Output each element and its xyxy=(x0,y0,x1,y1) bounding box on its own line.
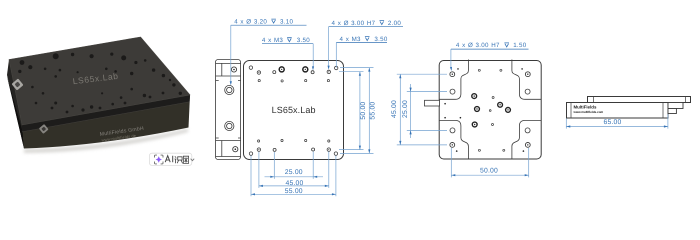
product soft shadow xyxy=(24,129,188,154)
svg-text:55.00: 55.00 xyxy=(369,102,376,120)
svg-text:65.00: 65.00 xyxy=(603,119,621,126)
strip counterbore hole 1 xyxy=(225,85,234,94)
dim 25.00 (left vertical of bottom view) xyxy=(407,91,447,93)
svg-text:25.00: 25.00 xyxy=(402,100,409,118)
small holes row 2 xyxy=(258,80,260,82)
strip counterbore hole 2 xyxy=(225,121,234,130)
drawing 3: side view top plate xyxy=(588,97,691,103)
svg-text:1.50: 1.50 xyxy=(513,42,527,49)
bottom-view dowel holes (ring+dot) xyxy=(450,72,455,77)
svg-text:4 x M3: 4 x M3 xyxy=(340,36,362,43)
drawing 1: top view left side-plate strip xyxy=(216,60,241,160)
product side connector bright spot 2 xyxy=(39,124,49,134)
corner pad top-right xyxy=(512,60,541,100)
svg-text:3.50: 3.50 xyxy=(374,36,388,43)
AI image-search badge xyxy=(149,153,194,165)
svg-text:45.00: 45.00 xyxy=(285,180,303,187)
product photo: LS65x.Lab stage 3D view xyxy=(7,37,190,153)
dim 45.00 (bottom) xyxy=(258,152,260,188)
product side connector bright spot 1 xyxy=(11,78,23,90)
center small holes xyxy=(492,97,494,99)
svg-text:4 x M3: 4 x M3 xyxy=(262,37,284,44)
M3 tapped holes with center dots xyxy=(257,71,260,74)
strip hole with dot (top band) xyxy=(231,67,236,72)
svg-text:LS65x.Lab: LS65x.Lab xyxy=(272,105,316,115)
product top face xyxy=(9,37,190,125)
small holes row 3 xyxy=(258,140,260,142)
strip hole with dot (bottom band) xyxy=(233,147,238,152)
svg-text:www.multifields.com: www.multifields.com xyxy=(573,110,604,114)
bottom-view plain holes xyxy=(450,89,455,94)
svg-text:50.00: 50.00 xyxy=(480,168,498,175)
drawing 1: top view main square plate xyxy=(244,61,344,160)
drawing 3: right step 1 xyxy=(668,103,683,109)
corner dowel holes (4x D3.00 H7) xyxy=(249,66,252,69)
product front seam strip xyxy=(22,95,190,132)
dim 55.00 (bottom) xyxy=(250,156,252,197)
svg-text:2.00: 2.00 xyxy=(388,20,402,27)
corner pad bottom-right xyxy=(512,120,541,159)
plain clearance holes xyxy=(273,71,276,74)
svg-text:55.00: 55.00 xyxy=(285,188,303,195)
dim 50.00 (right vertical) xyxy=(339,71,364,73)
svg-text:50.00: 50.00 xyxy=(360,102,367,120)
svg-text:4 x Ø 3.00 H7: 4 x Ø 3.00 H7 xyxy=(456,42,500,49)
dim 45.00 (left vertical of bottom view) xyxy=(397,73,447,75)
dim 50.00 (bottom of bottom view) xyxy=(450,148,452,177)
svg-text:4 x Ø 3.20: 4 x Ø 3.20 xyxy=(234,18,267,25)
product left side face xyxy=(7,60,24,149)
svg-text:3.10: 3.10 xyxy=(280,18,294,25)
left tab (lead screw tip) xyxy=(425,100,440,106)
dim 25.00 (bottom) xyxy=(273,152,275,179)
svg-text:3.50: 3.50 xyxy=(297,37,311,44)
corner pad bottom-left xyxy=(440,120,469,159)
svg-text:25.00: 25.00 xyxy=(285,169,303,176)
center cluster bearing holes xyxy=(472,94,477,99)
dim 55.00 (right vertical) xyxy=(340,67,374,69)
bottom-view edge small holes xyxy=(478,69,480,71)
bottom-view tiny corner dots xyxy=(457,68,459,70)
dim 65.00 (side view) xyxy=(565,119,567,129)
drawing 3: right step 2 xyxy=(668,109,676,114)
svg-text:45.00: 45.00 xyxy=(391,100,398,118)
product top-face holes xyxy=(18,53,182,114)
drawing 3: side view main body xyxy=(567,103,669,119)
counterbored holes (bold) xyxy=(279,67,284,72)
product front face xyxy=(22,95,190,149)
drawing 2: bottom view square plate xyxy=(439,61,541,160)
corner pad top-left xyxy=(440,60,469,100)
svg-text:4 x Ø 3.00 H7: 4 x Ø 3.00 H7 xyxy=(332,20,376,27)
